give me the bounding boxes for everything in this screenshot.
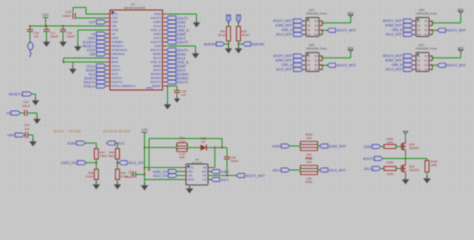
svg-text:23: 23 [161,72,163,74]
svg-text:AOUT1_MOT: AOUT1_MOT [337,29,357,33]
svg-text:12V: 12V [141,128,148,132]
svg-text:22: 22 [161,76,163,78]
svg-text:4: 4 [108,24,109,26]
svg-text:A1BS_MOT: A1BS_MOT [275,24,292,28]
svg-text:100k: 100k [431,163,438,167]
svg-text:13: 13 [108,60,110,62]
svg-text:26: 26 [161,60,163,62]
svg-text:74kΩ: 74kΩ [108,154,116,158]
svg-text:8.2kΩ: 8.2kΩ [86,175,94,179]
svg-text:V5: V5 [6,112,10,116]
svg-text:A2LG: A2LG [221,178,230,182]
svg-text:HMA0206_Fixed: HMA0206_Fixed [416,47,437,51]
svg-text:GND_A: GND_A [282,28,294,32]
svg-text:74kΩ: 74kΩ [100,154,108,158]
svg-text:HMA0206_Fixed: HMA0206_Fixed [306,12,327,16]
svg-text:37: 37 [161,16,163,18]
svg-text:R393: R393 [306,180,313,184]
svg-text:A1BS_DIV: A1BS_DIV [61,161,78,165]
svg-text:RESETn: RESETn [9,93,22,97]
svg-text:2: 2 [108,16,109,18]
svg-text:VCP: VCP [89,20,97,24]
svg-text:A2BS_MOT: A2BS_MOT [275,59,292,63]
svg-text:A2LG: A2LG [273,169,282,173]
svg-text:AISENN: AISENN [204,42,217,46]
svg-text:HMA0206_Fixed: HMA0206_Fixed [306,47,327,51]
svg-text:AOUT2_MOT: AOUT2_MOT [273,54,293,58]
svg-text:21: 21 [161,80,163,82]
svg-text:6: 6 [108,32,109,34]
svg-text:GND_B: GND_B [392,63,403,67]
svg-text:GND_A: GND_A [282,63,294,67]
svg-text:27: 27 [161,56,163,58]
svg-text:BISENP: BISENP [237,14,241,24]
svg-text:B2BS_MOT: B2BS_MOT [385,59,402,63]
svg-text:BOUT2: BOUT2 [177,80,188,84]
svg-text:A1BG_MOT: A1BG_MOT [329,145,346,149]
svg-text:5: 5 [108,28,109,30]
svg-text:22Ω: 22Ω [306,160,311,164]
svg-text:AOUT1_MOT: AOUT1_MOT [273,19,293,23]
svg-text:R45: R45 [179,156,185,160]
svg-text:R395: R395 [387,161,394,165]
svg-text:100nF: 100nF [62,14,71,18]
svg-text:18: 18 [108,80,110,82]
svg-text:10: 10 [108,48,110,50]
svg-text:A1LS_MOT: A1LS_MOT [276,68,293,72]
svg-text:GND: GND [188,178,194,182]
svg-text:C39: C39 [128,170,133,174]
svg-text:1uF: 1uF [24,127,29,131]
svg-text:SQ2302: SQ2302 [409,146,420,150]
svg-text:1uF: 1uF [34,35,39,39]
svg-text:30mΩ: 30mΩ [218,33,226,37]
svg-text:0V-11V → 0V-4.5V: 0V-11V → 0V-4.5V [53,130,81,134]
svg-text:HMA0206_Fixed: HMA0206_Fixed [416,12,437,16]
svg-text:100Ω: 100Ω [387,140,394,144]
svg-text:16: 16 [108,72,110,74]
svg-text:AOUT2_MOT: AOUT2_MOT [337,64,357,68]
svg-text:24: 24 [161,68,163,70]
svg-text:BISENN: BISENN [252,42,265,46]
svg-text:25: 25 [161,64,163,66]
svg-text:14: 14 [108,64,110,66]
svg-text:A2LS_MOT: A2LS_MOT [329,169,346,173]
svg-text:12V: 12V [42,13,49,17]
svg-text:100nF: 100nF [231,159,239,163]
svg-text:DIR: DIR [90,52,96,56]
svg-text:A2LS: A2LS [364,167,373,171]
svg-text:28: 28 [161,52,163,54]
svg-text:0.1Ω: 0.1Ω [179,139,185,143]
svg-text:29: 29 [161,48,163,50]
svg-text:35: 35 [161,24,163,26]
svg-text:38: 38 [161,12,163,14]
svg-text:30: 30 [161,44,163,46]
svg-text:B2LS_MOT: B2LS_MOT [386,33,403,37]
svg-text:A2LS_MOT: A2LS_MOT [276,33,293,37]
svg-text:M7: M7 [202,140,206,144]
svg-text:A1BS: A1BS [364,145,373,149]
svg-text:1nF: 1nF [181,93,186,97]
svg-text:B1LS_MOT: B1LS_MOT [386,68,403,72]
svg-text:100nF: 100nF [67,35,75,39]
svg-text:8: 8 [108,40,109,42]
svg-text:DRV8711DCPR: DRV8711DCPR [124,6,146,10]
svg-text:36: 36 [161,20,163,22]
svg-text:12: 12 [108,56,110,58]
svg-text:A1BS: A1BS [67,142,76,146]
svg-text:20: 20 [161,84,163,86]
svg-text:32: 32 [161,36,163,38]
svg-text:STALLn: STALLn [84,84,96,88]
svg-text:SQ2302: SQ2302 [409,168,420,172]
svg-text:34: 34 [161,28,163,30]
svg-text:VINT: VINT [7,134,15,138]
svg-text:31: 31 [161,40,163,42]
svg-text:19: 19 [108,84,110,86]
svg-text:7: 7 [108,36,109,38]
svg-text:BOUT2_MOT: BOUT2_MOT [447,64,467,68]
svg-text:33: 33 [161,32,163,34]
svg-text:A2LS_DIV: A2LS_DIV [128,161,145,165]
svg-text:100Ω: 100Ω [387,172,394,176]
svg-text:11: 11 [108,52,110,54]
svg-text:BOUT1_MOT: BOUT1_MOT [447,29,467,33]
svg-text:22Ω: 22Ω [306,136,311,140]
svg-text:30mΩ: 30mΩ [242,33,250,37]
svg-text:220uF: 220uF [50,35,58,39]
svg-text:BOUT1_MOT: BOUT1_MOT [383,19,403,23]
svg-text:1: 1 [108,12,109,14]
svg-text:A1BG: A1BG [221,170,230,174]
svg-text:BEMF: BEMF [152,84,161,88]
svg-text:STALLn/BEMFVn: STALLn/BEMFVn [112,84,136,88]
svg-text:B1BS_MOT: B1BS_MOT [385,24,402,28]
svg-text:AOUT2: AOUT2 [177,40,188,44]
svg-text:EG2132: EG2132 [192,161,203,165]
svg-text:BOUT2_MOT: BOUT2_MOT [383,54,403,58]
svg-text:100nF: 100nF [22,104,30,108]
svg-text:15: 15 [108,68,110,70]
svg-text:A2LS_DIV: A2LS_DIV [153,174,169,178]
svg-text:AOUT1: AOUT1 [363,157,374,161]
svg-text:3: 3 [108,20,109,22]
svg-text:GND_B: GND_B [392,28,403,32]
svg-text:A1BG: A1BG [272,145,281,149]
svg-text:AISENP: AISENP [227,14,231,24]
svg-text:AOUT1_MOT: AOUT1_MOT [246,174,266,178]
svg-text:17: 17 [108,76,110,78]
svg-text:0V-11V to 0V-4.5V: 0V-11V to 0V-4.5V [103,130,131,134]
svg-text:100nF: 100nF [125,175,133,179]
svg-text:9: 9 [108,44,109,46]
svg-text:EPAD: EPAD [146,86,153,90]
